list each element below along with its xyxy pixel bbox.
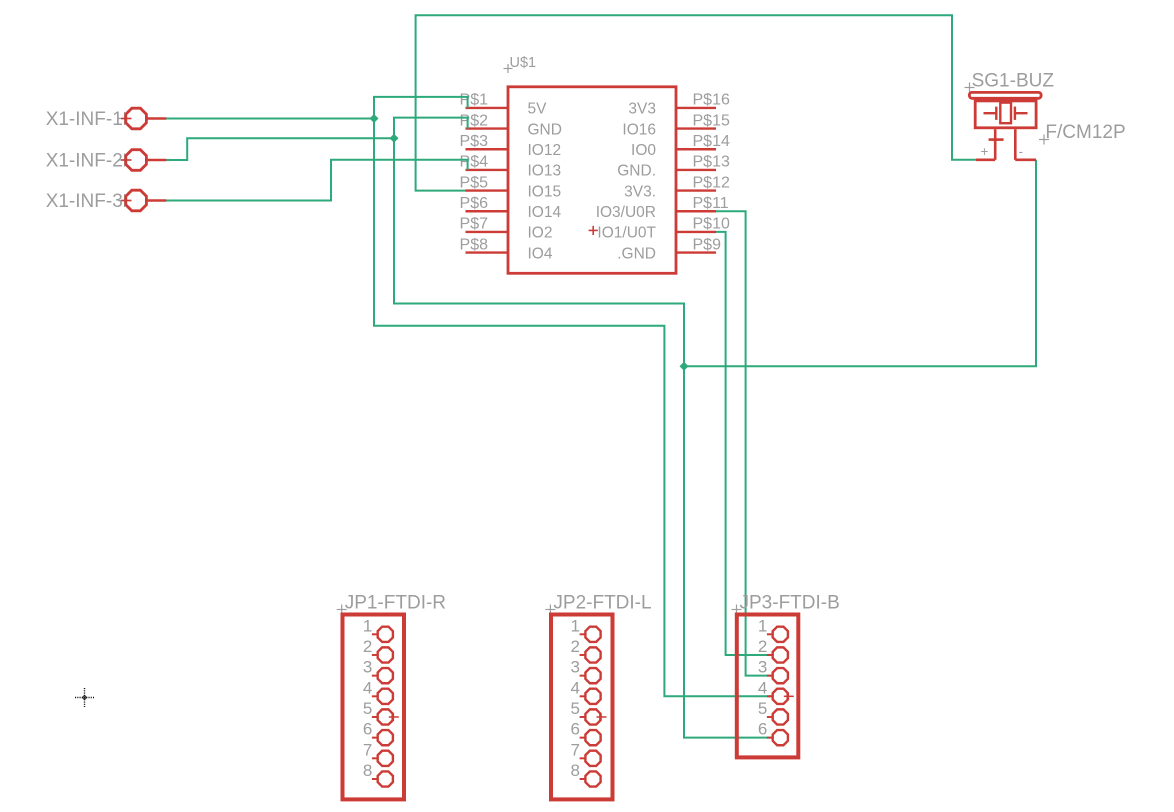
svg-text:5: 5 bbox=[571, 699, 580, 718]
svg-text:5V: 5V bbox=[528, 101, 548, 118]
svg-text:GND.: GND. bbox=[617, 163, 656, 180]
svg-text:IO3/U0R: IO3/U0R bbox=[596, 204, 656, 221]
svg-text:IO4: IO4 bbox=[528, 245, 553, 262]
svg-text:U$1: U$1 bbox=[510, 55, 537, 71]
svg-text:P$13: P$13 bbox=[693, 154, 730, 171]
svg-text:.GND: .GND bbox=[617, 245, 656, 262]
svg-text:GND: GND bbox=[528, 121, 562, 138]
svg-text:1: 1 bbox=[758, 616, 767, 635]
svg-text:X1-INF-1: X1-INF-1 bbox=[46, 109, 123, 130]
svg-text:8: 8 bbox=[363, 761, 372, 780]
svg-text:6: 6 bbox=[363, 720, 372, 739]
svg-text:2: 2 bbox=[758, 637, 767, 656]
svg-text:6: 6 bbox=[758, 720, 767, 739]
svg-text:+: + bbox=[981, 144, 989, 159]
svg-text:-: - bbox=[1019, 144, 1024, 159]
svg-text:4: 4 bbox=[363, 678, 372, 697]
svg-text:IO16: IO16 bbox=[622, 121, 656, 138]
svg-text:P$10: P$10 bbox=[693, 216, 730, 233]
svg-text:P$7: P$7 bbox=[460, 216, 489, 233]
svg-text:4: 4 bbox=[758, 678, 767, 697]
svg-text:P$6: P$6 bbox=[460, 195, 489, 212]
svg-text:IO0: IO0 bbox=[631, 142, 656, 159]
svg-text:X1-INF-2: X1-INF-2 bbox=[46, 150, 123, 171]
svg-text:5: 5 bbox=[758, 699, 767, 718]
svg-text:IO2: IO2 bbox=[528, 225, 553, 242]
svg-text:1: 1 bbox=[363, 616, 372, 635]
svg-text:X1-INF-3: X1-INF-3 bbox=[46, 191, 123, 212]
svg-text:P$12: P$12 bbox=[693, 174, 730, 191]
svg-text:3V3.: 3V3. bbox=[624, 183, 656, 200]
svg-text:P$3: P$3 bbox=[460, 133, 489, 150]
svg-text:3: 3 bbox=[758, 658, 767, 677]
svg-text:7: 7 bbox=[571, 740, 580, 759]
svg-text:P$11: P$11 bbox=[693, 195, 729, 212]
svg-text:3V3: 3V3 bbox=[628, 101, 656, 118]
svg-text:3: 3 bbox=[571, 658, 580, 677]
svg-text:1: 1 bbox=[571, 616, 580, 635]
svg-text:P$9: P$9 bbox=[693, 236, 722, 253]
svg-text:P$15: P$15 bbox=[693, 112, 730, 129]
svg-text:P$2: P$2 bbox=[460, 112, 489, 129]
svg-text:4: 4 bbox=[571, 678, 580, 697]
svg-text:IO1/U0T: IO1/U0T bbox=[597, 225, 656, 242]
svg-text:IO13: IO13 bbox=[528, 163, 562, 180]
svg-text:IO14: IO14 bbox=[528, 204, 562, 221]
svg-text:2: 2 bbox=[363, 637, 372, 656]
svg-text:5: 5 bbox=[363, 699, 372, 718]
svg-text:JP2-FTDI-L: JP2-FTDI-L bbox=[553, 592, 651, 613]
svg-text:P$1: P$1 bbox=[460, 92, 489, 109]
svg-text:P$5: P$5 bbox=[460, 174, 489, 191]
svg-text:JP1-FTDI-R: JP1-FTDI-R bbox=[345, 592, 446, 613]
svg-text:P$8: P$8 bbox=[460, 236, 489, 253]
svg-text:3: 3 bbox=[363, 658, 372, 677]
svg-text:IO12: IO12 bbox=[528, 142, 562, 159]
svg-text:8: 8 bbox=[571, 761, 580, 780]
svg-text:JP3-FTDI-B: JP3-FTDI-B bbox=[740, 592, 840, 613]
svg-text:P$14: P$14 bbox=[693, 133, 730, 150]
svg-text:SG1-BUZ: SG1-BUZ bbox=[972, 70, 1055, 91]
svg-text:P$4: P$4 bbox=[460, 154, 489, 171]
svg-text:P$16: P$16 bbox=[693, 92, 730, 109]
svg-text:2: 2 bbox=[571, 637, 580, 656]
svg-text:7: 7 bbox=[363, 740, 372, 759]
svg-text:F/CM12P: F/CM12P bbox=[1045, 122, 1125, 143]
svg-text:6: 6 bbox=[571, 720, 580, 739]
svg-text:IO15: IO15 bbox=[528, 183, 562, 200]
